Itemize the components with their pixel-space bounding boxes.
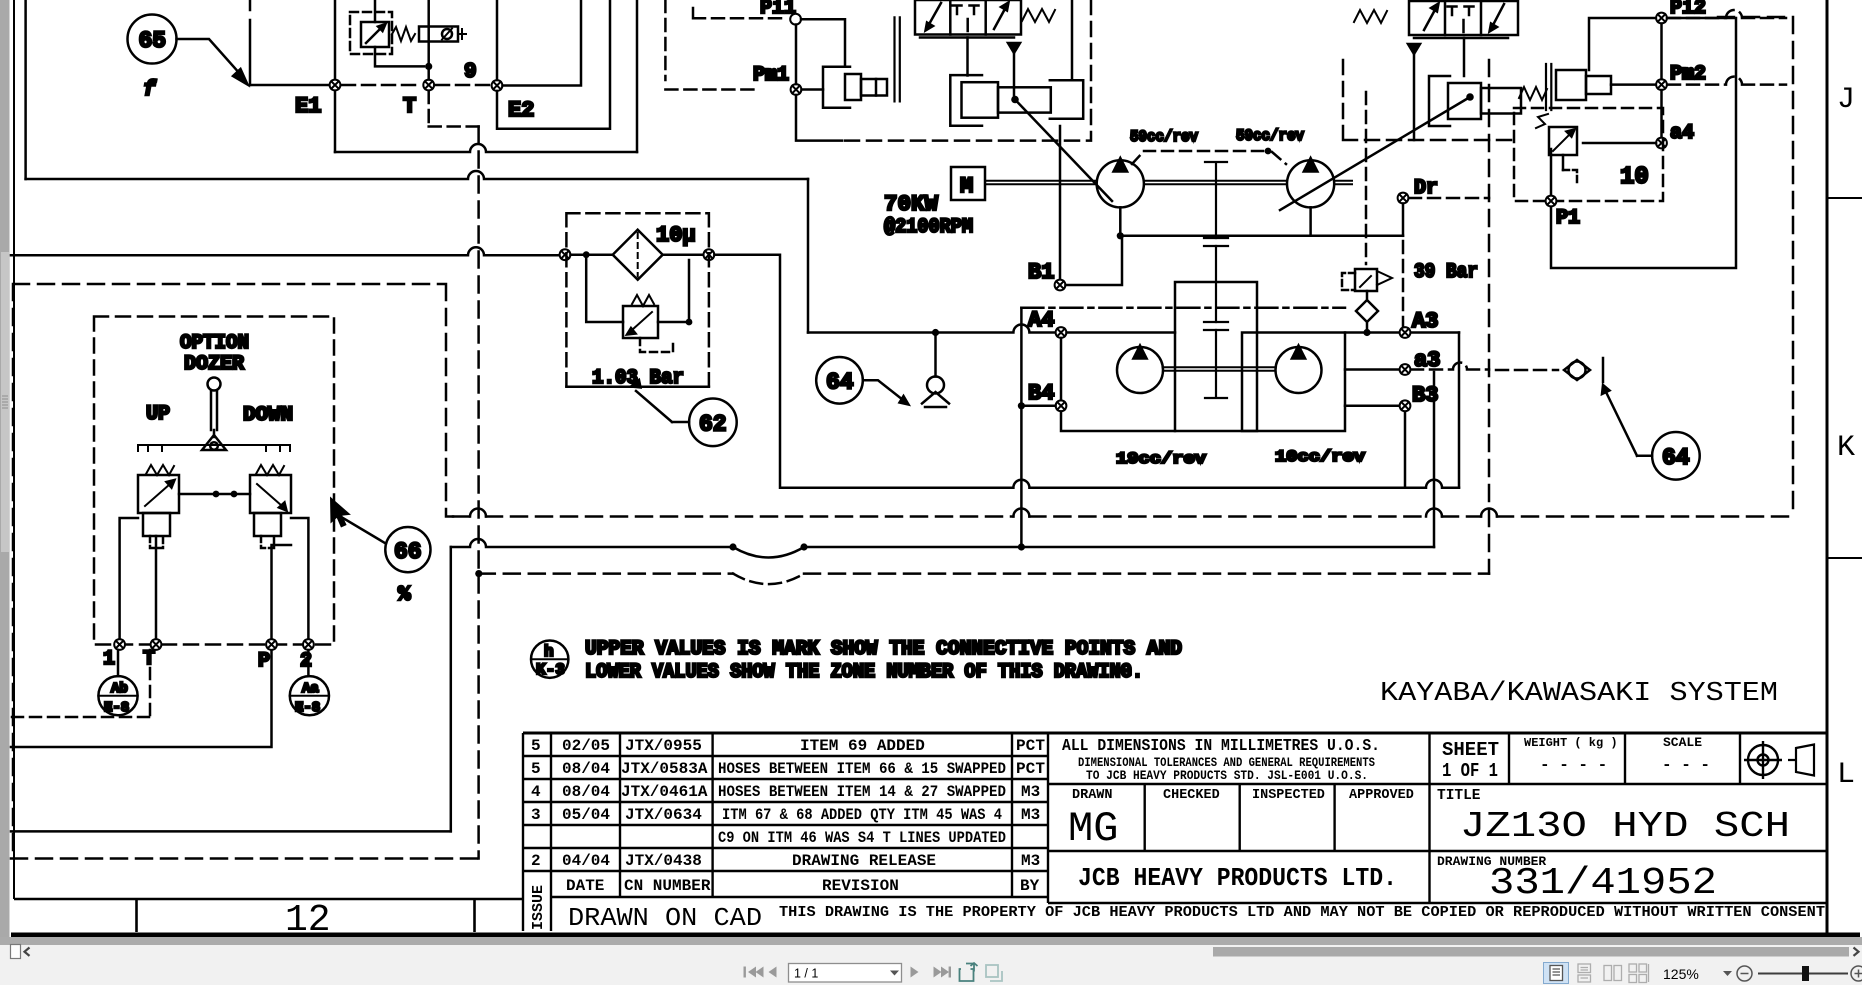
svg-text:@2100RPM: @2100RPM: [884, 216, 973, 239]
svg-text:CHECKED: CHECKED: [1163, 788, 1220, 803]
svg-text:PCT: PCT: [1016, 760, 1045, 778]
svg-text:K-3: K-3: [536, 661, 565, 679]
pilot box corner dashed: [665, 0, 758, 90]
svg-text:a4: a4: [1670, 122, 1694, 145]
svg-text:5: 5: [531, 737, 541, 755]
wire: down leg x808: [807, 179, 810, 333]
leader 65: [177, 39, 242, 75]
filter enclosure dashed: [566, 213, 709, 387]
svg-text:APPROVED: APPROVED: [1349, 788, 1414, 803]
toolbar clipboard icon (disabled): [986, 965, 1002, 981]
sheet cell line: [1428, 733, 1430, 903]
dozer valve down body: [250, 475, 291, 513]
bus y547: [451, 539, 1434, 547]
svg-text:PCT: PCT: [1016, 737, 1045, 755]
svg-text:B4: B4: [1028, 381, 1054, 406]
date column line: [619, 733, 621, 897]
pilot dashed from T: [429, 91, 479, 127]
gear housing: [1175, 282, 1257, 431]
mouse cursor: [330, 497, 351, 528]
dozer cross link: [179, 493, 250, 496]
layout icon 1 (active, single page): [1544, 963, 1569, 984]
bypass left leg: [586, 255, 623, 322]
svg-text:1 OF 1: 1 OF 1: [1442, 760, 1498, 782]
junction dot: [425, 63, 432, 70]
motor M box: [951, 167, 985, 200]
toolbar page box: [789, 964, 902, 983]
wire Pm1 to actuator: [802, 88, 824, 91]
valve2 tank bar: [1414, 37, 1508, 40]
svg-text:DATE: DATE: [566, 877, 604, 895]
tank line y831: [11, 830, 451, 833]
svg-text:UPPER VALUES IS MARK SHOW THE: UPPER VALUES IS MARK SHOW THE CONNECTIVE…: [585, 638, 1182, 661]
note balloon h/K-3: [531, 641, 568, 678]
sheet right border line: [1826, 0, 1829, 935]
cn column line: [711, 733, 713, 897]
inspected cell line: [1238, 784, 1240, 851]
a3 pilot dashed: [1411, 363, 1558, 370]
rev row 1: [531, 737, 1045, 755]
left scrollbar grip: [2, 396, 8, 408]
valve item9 body: [361, 22, 389, 47]
svg-text:B1: B1: [1028, 260, 1054, 285]
svg-text:T: T: [403, 94, 416, 119]
svg-text:Aa: Aa: [302, 681, 319, 697]
svg-text:ISSUE: ISSUE: [530, 885, 547, 930]
svg-text:64: 64: [1662, 445, 1690, 471]
zoom out circle: [1737, 966, 1752, 981]
wire E1-T dashed: [342, 84, 422, 87]
svg-text:ALL DIMENSIONS IN MILLIMETRES: ALL DIMENSIONS IN MILLIMETRES U.O.S.: [1062, 737, 1380, 756]
svg-text:70KW: 70KW: [884, 192, 939, 217]
svg-text:A3: A3: [1412, 309, 1438, 334]
hose sag y547: [733, 547, 804, 558]
row line 2: [523, 778, 1048, 780]
bus y516 hops: [470, 509, 1497, 517]
compensator spring: [1519, 87, 1547, 100]
svg-text:KAYABA/KAWASAKI SYSTEM: KAYABA/KAWASAKI SYSTEM: [1380, 679, 1778, 709]
approved cell line: [1333, 784, 1335, 851]
motor shaft: [1163, 367, 1275, 371]
wire A3 box right: [1458, 333, 1461, 488]
pin junction 2: [1466, 93, 1474, 101]
valve item9 spring: [392, 27, 415, 41]
bottom zone band line: [14, 898, 523, 901]
servo cylinder 1: [950, 75, 982, 126]
drain trunk dashed x1489: [1488, 60, 1491, 574]
pilot valve10 enclosure dashed: [1514, 108, 1663, 201]
checked cell line: [1143, 784, 1145, 851]
wire riser E1 above: [334, 0, 337, 80]
wire B3 stub: [1345, 405, 1399, 408]
lever stem: [211, 391, 217, 438]
zone separator J/K: [1827, 197, 1862, 199]
zoom slider track: [1758, 973, 1848, 975]
left vertical scrollbar track: [0, 0, 10, 959]
rev row 4: [531, 806, 1040, 824]
valve1 drain arrow: [1008, 43, 1020, 53]
wire E1 drop: [334, 91, 337, 152]
return line y747: [11, 650, 272, 747]
suction line y255: [11, 247, 560, 255]
svg-text:REVISION: REVISION: [822, 877, 899, 895]
node port1: [114, 639, 125, 650]
bottom sheet edge thick line: [11, 933, 1860, 938]
svg-text:M3: M3: [1021, 806, 1040, 824]
wire a3 stub: [1345, 368, 1399, 371]
dozer valve up arrow: [145, 484, 170, 506]
row line 5: [523, 847, 1048, 849]
svg-text:h: h: [544, 643, 554, 661]
pilot drop x1021: [1020, 308, 1023, 547]
filter enclosure bottom: [566, 385, 709, 388]
scale cell line: [1624, 733, 1626, 784]
check valve seat: [922, 392, 949, 407]
wire B1 link: [1066, 236, 1123, 285]
dozer valve down spring: [256, 465, 284, 475]
dozer valve up spring: [146, 465, 174, 475]
option dozer outer box dashed: [13, 284, 453, 852]
motor 2: [1276, 347, 1322, 393]
svg-text:Ab: Ab: [111, 681, 128, 697]
control valve 1 body: [915, 0, 1021, 35]
svg-text:DRAWN: DRAWN: [1072, 788, 1113, 803]
sheet left border line: [13, 0, 15, 899]
wire Pm2 left leg: [1611, 83, 1656, 86]
toolbar snapshot icon: [960, 963, 978, 981]
node A4: [1056, 327, 1067, 338]
svg-text:E2: E2: [508, 98, 534, 123]
svg-text:59cc/rev: 59cc/rev: [1130, 128, 1198, 146]
projection symbol: [1744, 741, 1814, 779]
svg-text:C9 ON ITM 46 WAS S4 T LINES UP: C9 ON ITM 46 WAS S4 T LINES UPDATED: [718, 829, 1006, 847]
drawn/checked/inspected/approved headers: [1072, 788, 1414, 803]
wire Pm1 riser: [796, 25, 842, 141]
wire B4 link: [1021, 405, 1055, 408]
scrollbar corner box: [11, 945, 21, 959]
node B3: [1400, 400, 1411, 411]
wire filter to drop: [714, 255, 1013, 488]
pilot plates: [895, 17, 900, 101]
compensator plates: [1546, 64, 1551, 110]
page box dropdown caret: [890, 971, 899, 976]
svg-text:K: K: [1837, 431, 1855, 465]
svg-text:08/04: 08/04: [562, 783, 610, 801]
svg-text:65: 65: [139, 28, 167, 54]
valve item9 dashed enclosure: [350, 12, 392, 54]
valve1 pilot drop: [966, 38, 969, 76]
wire Dr drop: [1402, 204, 1405, 236]
svg-text:Pm1: Pm1: [753, 64, 789, 87]
pm1 actuator bracket: [823, 67, 850, 108]
svg-text:10cc/rev: 10cc/rev: [1275, 448, 1365, 466]
node filter-out: [704, 249, 715, 260]
node B1: [1055, 280, 1066, 291]
svg-text:DRAWN ON CAD: DRAWN ON CAD: [568, 903, 762, 933]
svg-text:19cc/rev: 19cc/rev: [1116, 450, 1206, 468]
dozer solenoid down: [254, 513, 281, 536]
svg-text:05/04: 05/04: [562, 806, 610, 824]
svg-text:A4: A4: [1028, 308, 1054, 333]
check valve drop: [932, 329, 939, 336]
svg-text:E-8: E-8: [295, 700, 320, 716]
dashed Pm2 right: [1668, 77, 1786, 85]
node E1: [330, 80, 341, 91]
svg-text:JTX/0955: JTX/0955: [625, 737, 702, 755]
svg-text:DOWN: DOWN: [243, 404, 293, 427]
svg-text:1 / 1: 1 / 1: [794, 967, 818, 981]
row line 6: [523, 870, 1048, 872]
svg-text:J: J: [1837, 83, 1855, 117]
valve1 enclosure dashed: [845, 0, 1091, 141]
shaft coupling marks: [1204, 238, 1228, 330]
wire: tank return long line y179: [26, 171, 808, 179]
svg-text:UP: UP: [146, 403, 170, 426]
svg-text:L: L: [1837, 758, 1855, 792]
pump case drain link: [1120, 207, 1403, 235]
table outer top: [523, 732, 1826, 735]
node filter-in: [560, 249, 571, 260]
valve item9 arrow: [366, 28, 381, 43]
pilot dashed to Pi1: [693, 8, 786, 18]
connector T drain dashed: [12, 650, 150, 717]
leader 64 right: [1606, 392, 1652, 456]
svg-text:64: 64: [826, 370, 854, 396]
svg-text:M3: M3: [1021, 783, 1040, 801]
layout icon 3 (facing): [1604, 966, 1622, 981]
svg-text:f: f: [143, 79, 157, 102]
svg-text:02/05: 02/05: [562, 737, 610, 755]
table left edge: [522, 733, 524, 931]
node Pi1: [790, 14, 801, 25]
valve10 drain dashed: [1563, 170, 1577, 184]
bypass drain dashed: [640, 338, 673, 352]
svg-text:9: 9: [464, 61, 477, 84]
svg-text:M3: M3: [1021, 852, 1040, 870]
bus y573 dashed: [479, 572, 1489, 575]
row line 1: [523, 755, 1048, 757]
motor1 housing: [1061, 333, 1175, 432]
gear shaft: [1205, 162, 1227, 398]
row line 4: [523, 824, 1048, 826]
svg-text:04/04: 04/04: [562, 852, 610, 870]
svg-text:JTX/0583A: JTX/0583A: [621, 760, 708, 778]
bypass relief spring: [632, 295, 654, 306]
wire port2: [291, 518, 308, 639]
svg-text:- - -: - - -: [1662, 756, 1710, 774]
svg-text:P: P: [258, 650, 270, 673]
zoom in circle: [1851, 966, 1862, 981]
valve item9 supply: [374, 0, 377, 22]
dozer valve down arrow: [257, 484, 282, 506]
drain line y858 dashed: [11, 857, 479, 860]
wire filter out: [663, 253, 703, 256]
wire A3 line: [1345, 331, 1459, 334]
rev row 6: [531, 852, 1040, 870]
svg-text:JCB HEAVY PRODUCTS LTD.: JCB HEAVY PRODUCTS LTD.: [1078, 863, 1397, 893]
node Pi2: [1656, 13, 1667, 24]
valve2 pilot drop: [1463, 38, 1466, 76]
node a3: [1400, 364, 1411, 375]
connector circle Ab: [117, 650, 120, 676]
bypass right leg: [658, 260, 689, 322]
svg-text:DOZER: DOZER: [184, 353, 244, 376]
pin junction: [1011, 96, 1019, 104]
svg-text:P1: P1: [1556, 207, 1580, 230]
titleblock h line 2: [1048, 850, 1826, 852]
scrollbar left arrow: [25, 948, 30, 956]
svg-text:CN NUMBER: CN NUMBER: [624, 877, 711, 895]
svg-text:TO JCB HEAVY PRODUCTS STD. JSL: TO JCB HEAVY PRODUCTS STD. JSL-E001 U.O.…: [1086, 768, 1368, 783]
zoom dropdown caret: [1723, 971, 1732, 976]
titleblock h line 1: [1048, 783, 1826, 785]
rev header row: [566, 877, 1040, 895]
wire B1 riser: [1059, 126, 1062, 280]
svg-text:%: %: [398, 584, 411, 607]
svg-text:ITM 67 & 68 ADDED QTY ITM 45 W: ITM 67 & 68 ADDED QTY ITM 45 WAS 4: [722, 806, 1002, 824]
relief 39bar arrow: [1360, 276, 1371, 287]
pump feedback dashed: [1132, 151, 1286, 164]
svg-text:5: 5: [531, 760, 541, 778]
junction: [583, 251, 590, 258]
svg-text:Pi1: Pi1: [760, 0, 796, 20]
svg-text:JTX/0438: JTX/0438: [625, 852, 702, 870]
svg-text:66: 66: [394, 539, 422, 565]
leader 66: [337, 515, 386, 544]
check valve right: [1564, 360, 1590, 380]
solenoid: [419, 27, 458, 42]
node T: [423, 80, 434, 91]
wire right riser x637: [636, 0, 639, 152]
riser x450: [450, 547, 453, 831]
shuttle diamond: [1356, 291, 1378, 333]
svg-text:THIS DRAWING IS THE PROPERTY O: THIS DRAWING IS THE PROPERTY OF JCB HEAV…: [779, 904, 1825, 921]
row line 7: [551, 896, 1048, 898]
node a4: [1656, 138, 1667, 149]
node portT: [151, 639, 162, 650]
svg-text:JTX/0461A: JTX/0461A: [621, 783, 708, 801]
zone tick 2: [473, 899, 476, 932]
item balloon 62: [689, 399, 737, 447]
control valve 2 body: [1409, 1, 1518, 35]
svg-text:1: 1: [103, 648, 115, 671]
svg-text:LOWER VALUES SHOW THE ZONE NUM: LOWER VALUES SHOW THE ZONE NUMBER OF THI…: [585, 661, 1143, 684]
projection cell line: [1739, 733, 1741, 784]
motor 1: [1117, 347, 1163, 393]
leader 64 left: [863, 380, 903, 400]
svg-text:2: 2: [300, 650, 312, 673]
pm1 actuator body: [845, 74, 861, 100]
valve10 body: [1549, 127, 1577, 155]
svg-text:DRAWING RELEASE: DRAWING RELEASE: [792, 852, 936, 870]
relief 39bar pilot box dashed: [1342, 273, 1355, 290]
svg-text:3: 3: [531, 806, 541, 824]
svg-text:2: 2: [531, 852, 541, 870]
node portP: [266, 639, 277, 650]
titleblock left edge: [1047, 733, 1049, 903]
wire Pi2-Pm2-a4 riser: [1660, 24, 1663, 138]
toolbar first-page button: [744, 967, 764, 978]
node A3: [1400, 327, 1411, 338]
rev row 2: [531, 760, 1045, 778]
svg-text:- - - -: - - - -: [1540, 756, 1607, 774]
svg-text:59cc/rev: 59cc/rev: [1236, 127, 1304, 145]
svg-text:BY: BY: [1020, 877, 1040, 895]
hose sag y573: [733, 574, 804, 585]
svg-text:JTX/0634: JTX/0634: [625, 806, 702, 824]
node Dr: [1398, 193, 1409, 204]
wire to E1: [250, 84, 330, 87]
bus y487: [1013, 480, 1459, 488]
valve1 tank bar: [920, 36, 1014, 39]
toolbar background: [0, 945, 1862, 985]
wire: top-left box left edge: [24, 0, 27, 179]
relief 39bar spring: [1377, 271, 1392, 285]
lever pivot: [202, 435, 226, 450]
bypass relief body: [623, 306, 658, 338]
svg-text:10µ: 10µ: [656, 223, 696, 248]
row line 3: [523, 801, 1048, 803]
bus y516 dashed: [453, 515, 1790, 518]
node Pm1: [791, 84, 802, 95]
left scrollbar thumb: [1, 252, 9, 552]
node B4: [1056, 400, 1067, 411]
item balloon 64 right: [1652, 432, 1700, 480]
dozer valve up body: [138, 475, 179, 513]
wire a4 to valve10: [1583, 142, 1656, 145]
dashed Pi2 right: [1668, 10, 1786, 18]
svg-text:08/04: 08/04: [562, 760, 610, 778]
wire portP: [272, 545, 292, 639]
node P1: [1546, 196, 1557, 207]
compensator body: [1556, 70, 1586, 100]
svg-text:Dr: Dr: [1414, 177, 1438, 200]
wire E2 loop inner: [497, 0, 581, 86]
item balloon 66: [385, 527, 430, 572]
svg-text:M: M: [960, 174, 973, 199]
rev row 3: [531, 783, 1040, 801]
drive shaft: [985, 181, 1352, 185]
pump2 swash diagonal: [1280, 97, 1470, 210]
valve2 arrows: [1424, 8, 1436, 30]
bottom gray band: [0, 937, 1862, 945]
svg-text:MG: MG: [1068, 805, 1118, 853]
scrollbar right arrow: [1854, 948, 1859, 956]
lever knob: [208, 378, 221, 391]
item balloon 64 left: [816, 357, 863, 404]
node port2: [303, 639, 314, 650]
wire filter in: [571, 253, 613, 256]
wire riser x250: [249, 20, 252, 85]
wire portT: [155, 536, 158, 639]
svg-text:SCALE: SCALE: [1663, 735, 1702, 750]
pump 2: [1287, 160, 1334, 207]
check valve ball: [927, 377, 944, 394]
svg-text:62: 62: [699, 412, 727, 438]
wire a3 drop: [1433, 372, 1436, 547]
wire E2 loop outer: [497, 0, 610, 129]
node E2: [492, 80, 503, 91]
wire: y332.5 to A4: [808, 325, 1056, 333]
wire Pi2 left leg: [1589, 18, 1656, 70]
wire B3 drop: [1404, 411, 1407, 488]
svg-text:125%: 125%: [1663, 966, 1699, 982]
connector circle Aa: [307, 650, 310, 676]
lever crossbar: [138, 445, 290, 451]
layout icon 2 (continuous): [1578, 964, 1591, 982]
cylinder1 right leg: [1071, 0, 1074, 80]
svg-text:39 Bar: 39 Bar: [1414, 261, 1478, 284]
